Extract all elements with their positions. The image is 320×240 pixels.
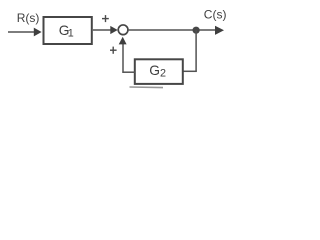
svg-text:R(s): R(s) — [17, 11, 40, 25]
wire dot down — [195, 30, 197, 72]
summing junction circle — [118, 25, 128, 35]
arrowhead into G1 — [34, 28, 42, 37]
wire G2 left side to feedback riser — [122, 71, 135, 73]
plus sign lower input — [110, 47, 117, 54]
wire input to G1 — [8, 31, 35, 33]
wire feedback riser up — [122, 44, 124, 73]
node junction dot — [193, 27, 200, 34]
arrowhead into summing junction — [110, 26, 117, 34]
block G1 — [44, 17, 92, 44]
wire G1 to summing junction — [93, 29, 111, 31]
plus sign upper input — [102, 15, 109, 22]
wire down-corner to G2 right side — [183, 70, 197, 72]
arrowhead output — [215, 26, 224, 35]
scan shadow line under G2 — [130, 86, 164, 89]
arrowhead up into summing junction — [119, 37, 127, 45]
block G2 — [135, 59, 183, 84]
wire summing junction to output — [129, 29, 216, 31]
svg-text:C(s): C(s) — [204, 8, 227, 22]
